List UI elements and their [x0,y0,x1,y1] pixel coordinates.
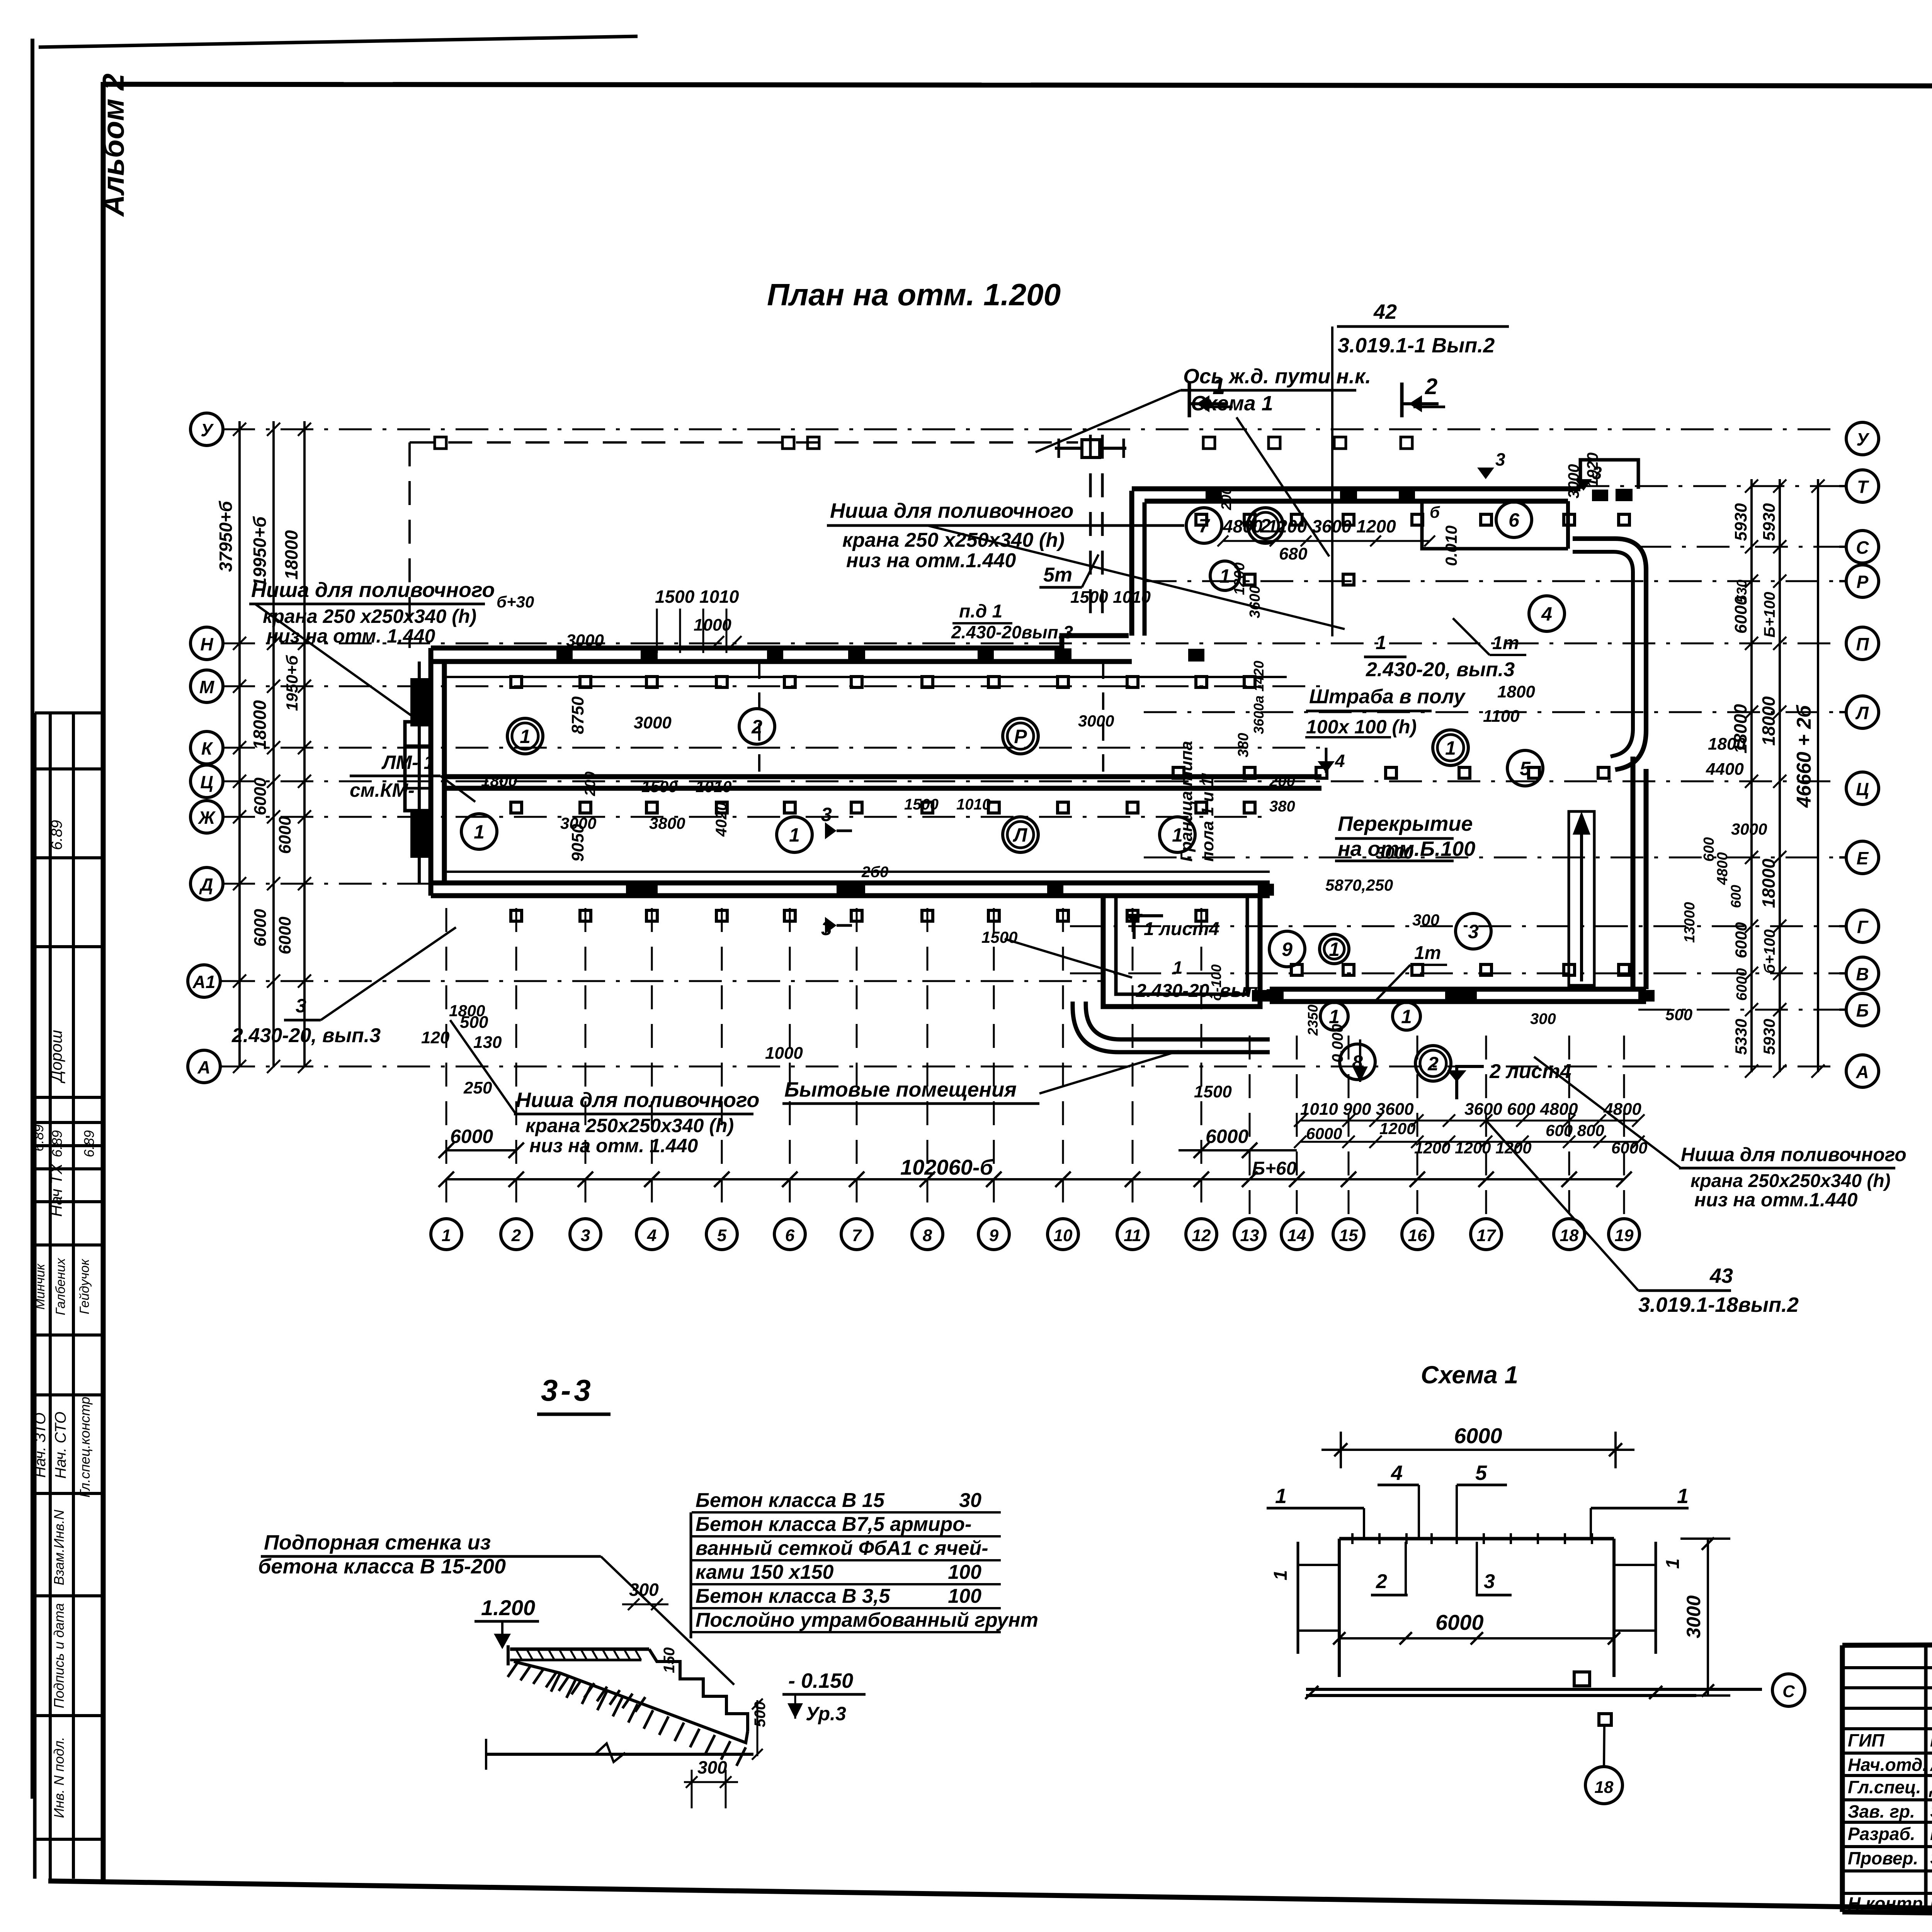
right building south wall [1270,987,1646,992]
svg-text:1 лист4: 1 лист4 [1144,919,1219,939]
svg-text:У: У [201,420,214,440]
svg-text:4: 4 [1391,1461,1403,1485]
svg-text:1: 1 [1401,1006,1412,1027]
svg-text:500: 500 [1665,1005,1692,1024]
svg-text:Н: Н [200,634,213,654]
svg-text:1: 1 [442,1226,451,1245]
left strip building middle wall [444,774,1321,779]
svg-text:100: 100 [948,1585,981,1607]
svg-text:18000: 18000 [1759,859,1779,908]
svg-text:1т: 1т [1414,943,1441,963]
svg-text:А: А [197,1057,210,1077]
title block outer [1842,1642,1932,1645]
svg-text:2 лист4: 2 лист4 [1489,1060,1571,1083]
svg-text:Б+60: Б+60 [1252,1158,1297,1179]
svg-text:Бетон класса В7,5 армиро-: Бетон класса В7,5 армиро- [696,1513,971,1536]
svg-text:Взам.Инв.N: Взам.Инв.N [51,1509,67,1585]
svg-text:3: 3 [821,804,832,825]
axis 10 vertical line [1062,908,1064,1218]
svg-text:1: 1 [1677,1485,1689,1508]
svg-text:Гл.спец.констр.: Гл.спец.констр. [77,1393,93,1497]
axis 5 vertical line [721,908,723,1218]
svg-text:Перекрытие: Перекрытие [1338,812,1473,835]
room circle 9 [1269,931,1305,967]
svg-text:3: 3 [296,995,306,1017]
svg-text:Шеткина: Шеткина [1930,1824,1932,1844]
svg-text:380: 380 [1235,733,1252,757]
svg-text:1800: 1800 [449,1002,485,1020]
svg-text:1: 1 [1445,737,1456,759]
right building west wall [1129,491,1134,636]
axis circle Ц right2 [1846,772,1879,804]
svg-text:Минчик: Минчик [33,1263,48,1310]
svg-text:Ниша для поливочного: Ниша для поливочного [516,1088,759,1112]
section mark 1 top [1188,383,1191,417]
svg-text:1: 1 [1172,824,1183,846]
svg-text:6.89: 6.89 [49,1130,65,1157]
svg-text:6.89: 6.89 [31,1124,46,1151]
svg-text:1: 1 [1219,565,1230,587]
svg-text:0.000: 0.000 [1329,1024,1346,1063]
room circle 7 [1186,508,1222,543]
svg-text:3000: 3000 [1565,464,1582,498]
svg-text:6000: 6000 [450,1126,493,1147]
svg-text:17: 17 [1477,1226,1497,1245]
svg-text:1: 1 [1376,632,1386,653]
section mark 2 top [1400,383,1404,417]
axis circle Д [190,867,223,900]
axis 19 vertical line [1623,1036,1625,1218]
svg-text:Б+100: Б+100 [1761,592,1778,638]
svg-text:5930: 5930 [1760,1019,1778,1055]
svg-text:0.010: 0.010 [1442,526,1460,566]
svg-text:ГИП: ГИП [1848,1730,1884,1750]
svg-text:бетона класса В 15-200: бетона класса В 15-200 [258,1555,506,1578]
svg-text:б+30: б+30 [497,593,534,611]
svg-text:1010: 1010 [956,796,991,813]
svg-text:2.430-20, вып.3: 2.430-20, вып.3 [231,1024,381,1047]
svg-text:1200: 1200 [1379,1119,1415,1138]
svg-text:9: 9 [1282,939,1293,960]
svg-text:п.д 1: п.д 1 [959,601,1002,622]
svg-text:43: 43 [1709,1264,1733,1287]
axis circle К [190,731,223,764]
left strip west end wall [429,648,434,896]
svg-text:Штраба в полу: Штраба в полу [1309,685,1466,708]
svg-text:- 0.150: - 0.150 [788,1669,853,1692]
svg-text:Н.контр.: Н.контр. [1848,1893,1928,1913]
svg-text:низ на отм. 1.440: низ на отм. 1.440 [267,625,435,647]
axis circle Е right [1846,841,1879,874]
svg-text:1800: 1800 [1497,682,1535,701]
axis circle М [190,670,223,702]
svg-text:2: 2 [511,1226,521,1245]
axis 15 vertical line [1348,1036,1350,1218]
axis circle С right [1846,531,1879,563]
svg-text:46660 + 2б: 46660 + 2б [1793,704,1815,808]
svg-text:100: 100 [948,1561,981,1583]
svg-text:низ на отм. 1.440: низ на отм. 1.440 [529,1135,698,1156]
svg-text:Послойно утрамбованный грунт: Послойно утрамбованный грунт [696,1609,1038,1631]
axis circle А [188,1050,220,1083]
svg-text:6: 6 [785,1226,795,1245]
svg-text:2: 2 [1427,1053,1439,1075]
svg-text:низ на отм.1.440: низ на отм.1.440 [846,549,1016,572]
svg-text:5870,250: 5870,250 [1325,876,1393,894]
svg-text:130: 130 [473,1033,502,1052]
filled wall columns [641,648,658,661]
svg-text:1500: 1500 [981,928,1017,946]
svg-text:Л: Л [1855,703,1869,723]
svg-text:Бытовые помещения: Бытовые помещения [784,1078,1017,1101]
svg-text:Р: Р [1857,572,1869,592]
axis circle А right2 [1846,1055,1879,1087]
svg-text:16: 16 [1408,1226,1427,1245]
scheme circle 18 [1585,1767,1622,1804]
axis circle 9 [978,1219,1009,1250]
axis circle 15 [1333,1219,1364,1250]
crane crossing symbol [1082,440,1100,457]
wall pier fills [556,649,573,662]
svg-text:300: 300 [629,1580,659,1600]
svg-text:Нач. СТО: Нач. СТО [52,1412,69,1479]
svg-text:1: 1 [1275,1485,1287,1508]
scheme small squares [1574,1672,1590,1686]
ramp arrow [1580,823,1583,981]
svg-text:5: 5 [1520,758,1531,779]
rail symbols on У axis [435,437,446,449]
title block verticals [1924,1645,1928,1910]
main frame bottom border [48,1881,1932,1919]
svg-text:Зеленюк: Зеленюк [1930,1801,1932,1821]
svg-text:Е: Е [1857,848,1869,868]
axis circle 3 [570,1219,601,1250]
svg-text:План на отм. 1.200: План на отм. 1.200 [767,277,1061,312]
svg-text:2.430-20. вып.: 2.430-20. вып. [1136,981,1263,1001]
room circle 5 [1507,750,1543,786]
svg-text:2: 2 [1425,374,1437,399]
svg-text:5: 5 [1475,1461,1487,1485]
scheme dim 3000 rotated [1707,1539,1709,1696]
axis circle У right2 [1846,422,1879,455]
svg-text:1100: 1100 [1483,707,1520,726]
svg-text:1500 1010: 1500 1010 [655,587,739,607]
svg-text:30: 30 [959,1489,981,1512]
crane rail line top [444,676,1287,678]
axis line У [222,429,1839,430]
svg-text:В: В [1856,964,1869,984]
axis circle Ж [190,801,223,833]
svg-text:6000: 6000 [1734,968,1750,1001]
room circle 1 (left end) [461,814,497,849]
axis line А/1 [222,980,1103,982]
svg-text:Бетон класса В 15: Бетон класса В 15 [696,1489,885,1512]
axis circle 16 [1402,1219,1433,1250]
svg-text:600 800: 600 800 [1546,1121,1604,1139]
svg-text:5930: 5930 [1731,503,1750,541]
svg-text:К: К [201,738,213,759]
svg-text:Зеленюк: Зеленюк [1930,1848,1932,1868]
room circle 2 (double) [1248,508,1283,543]
axis line Р right [1144,580,1839,582]
axis line А [222,1066,1839,1068]
axis circle Ц [190,765,223,798]
axis line Г right [1070,925,1839,927]
svg-text:3: 3 [1495,449,1505,469]
svg-text:Альбом 2: Альбом 2 [96,73,130,217]
axis 17 vertical line [1485,1036,1487,1218]
svg-text:18: 18 [1560,1226,1579,1245]
svg-text:200: 200 [1269,773,1295,790]
dashed floor border in strip [758,662,760,777]
svg-text:300: 300 [697,1757,727,1777]
room circle 1 (right mid double) [1433,730,1468,765]
axis circle Б right [1846,993,1879,1026]
room circle 4 [1529,596,1565,631]
svg-text:380: 380 [1269,798,1295,815]
svg-text:6000: 6000 [251,777,270,815]
svg-text:1800: 1800 [1708,735,1746,753]
svg-text:ванный сеткой ФбА1 с ячей-: ванный сеткой ФбА1 с ячей- [696,1537,988,1560]
svg-text:Котенко: Котенко [1930,1893,1932,1913]
room circle 2 below (double) [1415,1046,1451,1081]
axis circle 5 [706,1219,737,1250]
svg-text:1500: 1500 [904,796,939,813]
svg-text:6000: 6000 [1732,922,1750,958]
axis circle Н [190,627,223,660]
svg-text:6000: 6000 [251,909,270,947]
svg-text:6000: 6000 [1206,1126,1248,1147]
svg-text:3000: 3000 [560,814,596,832]
svg-text:1010: 1010 [696,777,731,796]
room circle Л (strip bottom mid, double) [1003,817,1038,852]
svg-text:1.200: 1.200 [481,1595,535,1620]
svg-text:Гл.спец.: Гл.спец. [1848,1777,1921,1797]
left stamp row lines [35,711,103,714]
crane rail dashed pair [1089,435,1092,625]
axis line М [222,685,1321,687]
svg-text:Подпись и дата: Подпись и дата [51,1603,67,1708]
svg-text:Ниша для поливочного: Ниша для поливочного [1681,1144,1906,1165]
svg-text:Зав. гр.: Зав. гр. [1848,1801,1915,1821]
svg-text:Дорош: Дорош [47,1030,65,1083]
svg-text:3000: 3000 [1078,712,1114,730]
axis 4 vertical line [651,908,653,1218]
left strip building top wall [431,636,1129,648]
svg-text:Р: Р [1014,726,1027,747]
svg-text:13: 13 [1240,1226,1259,1245]
axis line Ц [222,781,1839,782]
section mark 1 лист4 (household) [1134,916,1163,939]
svg-text:1: 1 [474,821,485,843]
axis 9 vertical line [993,908,995,1218]
svg-text:5т: 5т [1043,564,1072,586]
svg-text:200: 200 [582,772,599,796]
axis 18 vertical line [1568,1036,1570,1218]
axis circle 8 [912,1219,943,1250]
svg-text:100х 100 (h): 100х 100 (h) [1306,716,1417,738]
svg-text:1: 1 [1173,957,1183,978]
svg-text:4800: 4800 [1603,1100,1641,1119]
svg-text:Ось ж.д. пути н.к.: Ось ж.д. пути н.к. [1183,365,1371,388]
room circle 1 in ramp area [1320,1002,1348,1030]
right building north-east notch wall [1580,460,1638,489]
svg-text:6.89: 6.89 [48,820,65,850]
axis 16 vertical line [1417,1036,1418,1218]
svg-text:15: 15 [1339,1226,1358,1245]
left stamp column lines [33,713,37,1879]
svg-text:А: А [1855,1062,1869,1082]
scheme side walls [1338,1539,1341,1677]
svg-text:П: П [1856,634,1869,654]
svg-text:14: 14 [1287,1226,1306,1245]
svg-text:4: 4 [1541,603,1552,625]
svg-text:300: 300 [1412,911,1439,929]
axis line С right [1638,546,1839,548]
axis line Д [222,883,1270,885]
surface hatch top [516,1649,522,1660]
axis 8 vertical line [927,908,929,1218]
svg-text:3.019.1-1 Вып.2: 3.019.1-1 Вып.2 [1338,334,1495,357]
axis 7 vertical line [856,908,858,1218]
svg-text:19950+б: 19950+б [250,516,270,587]
svg-text:Схема 1: Схема 1 [1421,1361,1518,1389]
sheet outer left edge [31,39,34,1799]
section mark 2 лист4 bottom [1457,1066,1484,1099]
axis circle 7 [841,1219,872,1250]
axis circle А/1 [188,965,220,997]
svg-text:1: 1 [789,824,800,846]
svg-text:18000: 18000 [1759,696,1779,746]
axis line Н [222,643,1839,645]
rounded ramp wall (right) [1573,539,1646,770]
svg-text:102060-б: 102060-б [900,1155,994,1179]
svg-text:5: 5 [717,1226,727,1245]
svg-text:3800: 3800 [649,814,685,832]
room circle 8 [1340,1044,1375,1080]
svg-text:6: 6 [1509,509,1520,531]
svg-text:2б0: 2б0 [861,864,888,881]
svg-text:ками 150 х150: ками 150 х150 [696,1561,834,1583]
room circle 1 tiny [1320,934,1349,964]
axis 11 vertical line [1132,908,1134,1218]
svg-text:4020: 4020 [713,802,730,837]
bottom dim 6000 axis12-13 [1179,1149,1297,1151]
svg-text:18: 18 [1595,1778,1614,1797]
svg-text:6000: 6000 [276,917,294,954]
axis circle 4 [636,1219,667,1250]
svg-text:Ц: Ц [1856,779,1869,799]
right dimension chains [1750,479,1753,1072]
axis circle П right2 [1846,627,1879,660]
svg-text:4: 4 [647,1226,656,1245]
axis line В right [1070,973,1839,975]
svg-text:530: 530 [1734,580,1750,603]
svg-text:Ниша для поливочного: Ниша для поливочного [251,578,495,602]
bottom dim 6000 left [446,1149,516,1151]
axis line Т right [1577,485,1839,487]
svg-text:Разраб.: Разраб. [1848,1824,1915,1844]
svg-text:Ниша для поливочного: Ниша для поливочного [830,499,1073,522]
svg-text:8750: 8750 [568,696,587,734]
svg-text:300: 300 [1530,1010,1556,1027]
svg-text:1500: 1500 [641,777,677,796]
svg-text:3600: 3600 [1247,585,1263,618]
svg-text:3.019.1-18вып.2: 3.019.1-18вып.2 [1638,1293,1799,1316]
columns row through right building mid [1173,767,1184,778]
svg-text:11: 11 [1124,1226,1141,1245]
svg-text:Д: Д [199,874,213,895]
svg-text:3: 3 [1468,921,1479,942]
svg-text:3-3: 3-3 [541,1373,594,1407]
room circle P (strip top right) [1003,718,1038,754]
svg-text:1200: 1200 [1231,562,1248,595]
axis line Л right [1144,711,1839,713]
svg-text:Ж: Ж [198,808,216,828]
svg-text:37950+б: 37950+б [216,500,236,572]
title block left rows [1842,1666,1932,1669]
svg-text:Антоненко: Антоненко [1930,1755,1932,1775]
svg-text:Т: Т [1857,477,1869,497]
svg-text:500: 500 [752,1701,769,1727]
svg-text:Бетон класса В 3,5: Бетон класса В 3,5 [696,1585,890,1607]
svg-text:7: 7 [852,1226,862,1245]
ground hatch left [508,1662,518,1677]
svg-text:2.430-20вып.3: 2.430-20вып.3 [951,622,1073,642]
svg-text:ЛМ- 1: ЛМ- 1 [381,752,434,773]
svg-text:Нач. ЗТО: Нач. ЗТО [32,1413,49,1478]
main frame left border [101,82,106,1883]
crane rail line bottom [444,871,1270,873]
svg-text:9: 9 [989,1226,999,1245]
svg-text:1500: 1500 [1194,1082,1232,1101]
axis circle 11 [1117,1219,1148,1250]
svg-text:1010 900 3600: 1010 900 3600 [1300,1100,1414,1119]
axis circle 14 [1281,1219,1312,1250]
svg-text:Нач ТХ: Нач ТХ [47,1163,65,1217]
household block walls [1103,896,1260,1007]
right building east wall lower [1631,757,1636,989]
svg-text:крана 250х250х340 (h): крана 250х250х340 (h) [526,1115,734,1136]
axis 13 vertical line [1249,1036,1251,1218]
scheme circle С [1772,1674,1805,1706]
scheme top wall [1339,1537,1614,1541]
svg-text:2350: 2350 [1305,1005,1321,1036]
axis circle Г right [1846,910,1879,942]
svg-text:12: 12 [1192,1226,1211,1245]
svg-text:1: 1 [1663,1558,1683,1569]
svg-text:Б: Б [1856,1000,1869,1020]
svg-text:А1: А1 [192,972,216,992]
svg-text:1950+б: 1950+б [283,655,301,711]
svg-text:б: б [1430,503,1440,521]
svg-text:4800 1200 3600 1200: 4800 1200 3600 1200 [1223,516,1396,536]
svg-text:1500 1010: 1500 1010 [1070,588,1151,607]
left strip building bottom wall [431,881,1270,886]
axis line К [222,747,1321,749]
svg-text:200: 200 [1218,487,1234,510]
svg-text:19: 19 [1615,1226,1634,1245]
svg-text:18000: 18000 [250,700,270,750]
svg-text:250: 250 [463,1078,492,1097]
axis circle Р right [1846,565,1879,597]
svg-text:2: 2 [751,716,762,738]
axis line Е right [1144,857,1839,859]
svg-text:4: 4 [1335,751,1345,771]
svg-text:10: 10 [1054,1226,1073,1245]
right building north wall [1132,486,1580,492]
scheme flank brackets [1297,1542,1299,1654]
